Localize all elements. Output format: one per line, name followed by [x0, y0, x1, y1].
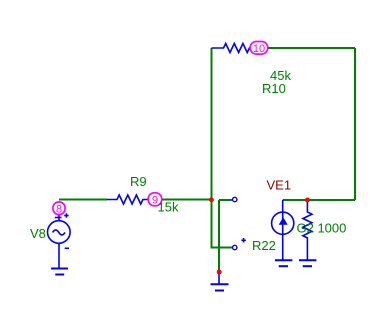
ground under VE1	[275, 260, 293, 266]
svg-text:8: 8	[56, 203, 62, 215]
junction middle ground	[217, 270, 222, 275]
plus sign R22	[241, 238, 245, 242]
svg-text:R9: R9	[130, 174, 147, 189]
ground under resistor	[299, 260, 316, 266]
node 9	[148, 193, 162, 207]
svg-text:R22: R22	[252, 238, 276, 253]
node 8	[53, 202, 65, 215]
ground middle	[211, 272, 229, 291]
resistor R10	[212, 44, 260, 53]
wire right vertical	[354, 48, 356, 200]
svg-text:VE1: VE1	[267, 177, 292, 192]
sense terminal upper (open circle)	[233, 197, 237, 201]
junction VE1 top	[305, 198, 310, 203]
wire sense vertical to ground	[218, 200, 220, 272]
wire from node 9 to junction	[155, 199, 212, 201]
resistor 1000 (right branch)	[303, 200, 312, 260]
junction node 9/10	[209, 197, 214, 202]
wire vertical left feedback branch	[212, 48, 233, 248]
controlled source VE1	[272, 200, 294, 260]
ground under V8	[51, 269, 68, 275]
svg-text:15k: 15k	[158, 200, 179, 215]
resistor R9	[107, 195, 152, 204]
svg-text:10: 10	[253, 43, 265, 55]
svg-text:G2 1000: G2 1000	[297, 221, 347, 236]
source V8	[48, 213, 71, 268]
svg-text:R10: R10	[262, 81, 286, 96]
sense terminal lower (open circle, + input of R22 sense)	[233, 245, 237, 249]
node 10	[250, 42, 268, 55]
wire to VE1 top	[283, 199, 355, 201]
svg-text:V8: V8	[30, 226, 46, 241]
wire from V8 to R9	[59, 199, 107, 201]
wire top horizontal	[267, 47, 355, 49]
wire sense upper	[219, 199, 232, 201]
